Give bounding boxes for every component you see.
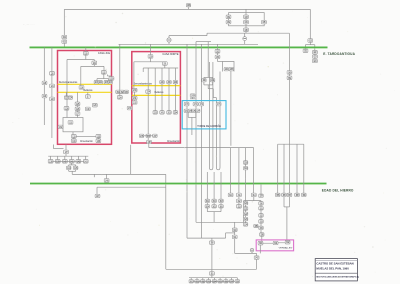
unit box 033 xyxy=(101,71,106,75)
svg-text:Cimentación: Cimentación xyxy=(167,140,180,143)
unit boxes row 2 center xyxy=(206,203,208,205)
unit box 014 xyxy=(262,20,267,24)
left column boxes box2 xyxy=(132,88,137,92)
svg-text:CASA JCE: CASA JCE xyxy=(98,52,110,55)
wire bracket under rows xyxy=(206,208,208,212)
unit box 007 xyxy=(314,54,316,55)
svg-text:Derrumbamientos: Derrumbamientos xyxy=(134,83,153,86)
unit box 038 xyxy=(64,107,69,111)
wire L1 xyxy=(67,59,94,61)
unit box 094b above blue box xyxy=(190,94,195,98)
unit box 022 xyxy=(50,72,55,76)
title block inner top line xyxy=(315,260,357,262)
wire lower horizontal y187 xyxy=(97,186,166,188)
unit box 042 left edge xyxy=(58,125,63,129)
unit box 021 xyxy=(42,94,47,98)
dash 140-141 xyxy=(263,242,273,244)
wire red box 2 corner drop xyxy=(130,145,132,175)
unit box 111 xyxy=(237,193,242,197)
bottom row boxes xyxy=(190,278,192,280)
wire L2 xyxy=(81,65,104,67)
wire L1b xyxy=(134,61,165,63)
wire to bottom box xyxy=(147,138,149,141)
wire under pair 90-91 xyxy=(203,82,205,85)
unit box 002 xyxy=(62,35,67,39)
unit box 118b xyxy=(245,164,247,166)
wire stub to magenta xyxy=(286,207,288,241)
unit box 090 xyxy=(202,79,207,83)
wire into green line xyxy=(63,43,65,47)
svg-text:~ . — · - ··: ~ . — · - ·· xyxy=(23,24,35,27)
wire bottom U xyxy=(166,268,257,270)
wire L2 left drop xyxy=(80,66,82,85)
hairpin loop 1 xyxy=(209,62,213,170)
unit box pair between xyxy=(116,90,121,94)
svg-text:SECTOR A (SECUENCIA ESTRATIGRA: SECTOR A (SECUENCIA ESTRATIGRAFICA) xyxy=(316,276,359,279)
wire pair bracket xyxy=(71,163,73,165)
unit box 015 below loop xyxy=(244,28,249,32)
wire vertical x187 xyxy=(186,44,188,238)
wire branch under 112 xyxy=(253,197,255,201)
unit box 050 xyxy=(64,150,69,154)
wire center drop box2 xyxy=(147,68,149,90)
unit box row y136 xyxy=(139,134,144,138)
wire riser to bottom U xyxy=(256,259,258,269)
wire long vertical x166 xyxy=(165,174,167,269)
wire L1 right drop xyxy=(93,60,95,62)
wire B2 down xyxy=(164,65,166,68)
wire vertical x201 xyxy=(200,44,202,238)
wire bracket under 094b xyxy=(192,97,194,99)
unit box 110 xyxy=(228,193,233,197)
unit box 070 xyxy=(148,55,153,59)
wire right drop from top bus xyxy=(309,9,311,38)
unit box 037 xyxy=(87,92,89,94)
red group box CASA NORTE xyxy=(132,52,181,143)
wire step down xyxy=(207,85,209,89)
yellow phase line 2a xyxy=(58,91,112,93)
unit box 094 pair xyxy=(224,68,229,72)
unit box 060 xyxy=(67,166,72,170)
wire fan right segment xyxy=(207,32,289,34)
unit box 113 side xyxy=(254,224,259,228)
unit box 043 xyxy=(71,135,76,139)
unit box 098 xyxy=(216,102,221,106)
wire L2b drops xyxy=(154,68,156,111)
svg-text:CASTRO DE SAN ESTEBAN: CASTRO DE SAN ESTEBAN xyxy=(316,262,353,266)
wire bar drops xyxy=(277,144,279,193)
column B top box xyxy=(260,184,262,194)
unit box 099 pair xyxy=(184,109,189,113)
wire A2 down xyxy=(150,58,152,62)
wire center drop lower xyxy=(147,93,149,134)
unit box 008 xyxy=(314,58,316,59)
wire stub from y222 to 114 xyxy=(234,222,236,228)
wire room down xyxy=(72,132,74,135)
unit box 003 xyxy=(62,40,67,44)
unit box 041 in room xyxy=(68,121,73,125)
unit box 114 xyxy=(232,228,237,232)
circle symbol 116 xyxy=(250,248,254,252)
unit box 061 xyxy=(74,166,79,170)
unit box 024 xyxy=(50,97,55,101)
unit box 030 xyxy=(83,52,88,56)
unit box 044 xyxy=(73,138,75,139)
wire box A down xyxy=(85,55,87,60)
bracket to edge box xyxy=(108,75,112,77)
green line Edad del Hierro xyxy=(30,182,327,184)
unit box 130 xyxy=(287,71,292,75)
unit box 093 xyxy=(217,53,219,55)
unit box 001 above top bus xyxy=(188,7,190,9)
unit box 087 xyxy=(119,94,121,96)
wire L3 xyxy=(97,78,109,80)
wire horizontal y222 xyxy=(196,221,244,223)
wire horizontal y253 xyxy=(235,252,257,254)
wire cluster stem xyxy=(245,9,247,33)
wire L2b xyxy=(143,67,178,69)
unit boxes above yellow 1b xyxy=(160,80,165,84)
wire long vertical x289 xyxy=(289,33,291,144)
yellow phase line 2b xyxy=(132,94,181,96)
unit box 080 between yellows 2 xyxy=(146,90,151,94)
unit box 085 on edge xyxy=(109,77,114,81)
wire staircase xyxy=(225,233,227,238)
svg-text:MUELAS DEL PAN, 1990: MUELAS DEL PAN, 1990 xyxy=(316,267,349,271)
unit box 091 xyxy=(210,79,215,83)
column B x261 xyxy=(260,201,262,202)
unit box 036 pair xyxy=(65,92,67,96)
wire stub to box 120 xyxy=(211,238,213,241)
wire top bus xyxy=(64,8,310,10)
junction stub xyxy=(93,174,95,177)
unit box 020 xyxy=(42,81,47,85)
svg-text:CASA NORTE: CASA NORTE xyxy=(162,53,178,56)
unit box 096 xyxy=(193,102,198,106)
wire bracket y41 xyxy=(196,41,211,43)
dash 141-142 xyxy=(278,242,285,244)
unit box 071 xyxy=(162,62,167,66)
wire long horizontal y174 xyxy=(72,173,166,175)
unit box 032 between yellow lines xyxy=(79,86,84,90)
wire left corner stub xyxy=(52,145,54,149)
unit box 004 xyxy=(308,39,313,43)
red group box CASA JCE xyxy=(58,51,112,145)
dash row bottom xyxy=(193,280,235,282)
wire x212 down xyxy=(211,244,213,271)
svg-text:Rellenos: Rellenos xyxy=(155,92,165,94)
wire x234 down xyxy=(234,239,236,254)
wire under pair xyxy=(68,170,70,172)
unit box 023 xyxy=(50,84,55,88)
wire bracket under pairs xyxy=(187,113,189,118)
wire columns to box rows xyxy=(206,172,208,199)
yellow phase line 1a xyxy=(58,83,112,85)
unit box 097 xyxy=(199,102,204,106)
wire fan step xyxy=(206,33,208,35)
svg-text:TORRE DE CAMPAÑA: TORRE DE CAMPAÑA xyxy=(197,125,221,128)
wire green to box A xyxy=(85,47,87,51)
unit boxes under 111 xyxy=(238,197,240,199)
unit box 039 xyxy=(92,103,97,107)
wire L3 drops xyxy=(96,79,98,81)
small rect under xyxy=(217,59,219,62)
magenta group box Versalles xyxy=(256,240,293,251)
wire box C down xyxy=(103,74,105,79)
breaker symbol right xyxy=(244,33,246,36)
wire pair box drop to lower rows xyxy=(230,71,232,146)
unit box 035 pair xyxy=(104,81,109,85)
unit box outside left edge xyxy=(127,106,132,110)
svg-text:E. TARDOANTIGUA: E. TARDOANTIGUA xyxy=(323,52,355,56)
wire sub U under right row xyxy=(283,197,285,207)
wire box B down xyxy=(93,65,95,67)
unit box 147 on green 2 xyxy=(106,174,108,178)
unit box 100 pair xyxy=(192,109,197,113)
svg-text:Cimentación: Cimentación xyxy=(80,140,93,143)
unit box 011 xyxy=(226,20,231,24)
svg-text:EDAD DEL HIERRO: EDAD DEL HIERRO xyxy=(322,189,354,193)
unit box 013 xyxy=(244,20,249,24)
wire green to box A2 xyxy=(150,44,152,54)
svg-text:Derrumbamientos: Derrumbamientos xyxy=(59,81,78,84)
wire between boxes drop xyxy=(119,44,121,90)
unit box 131 xyxy=(287,76,292,80)
unit boxes row y112 xyxy=(153,111,158,115)
unit box 121 on U xyxy=(210,272,215,276)
wire L1b left drop xyxy=(133,62,135,89)
wire drops from y147 bus xyxy=(230,148,232,194)
dash row under bar xyxy=(53,160,84,162)
green line E. Tardoantigua xyxy=(30,46,328,48)
column A x245 xyxy=(245,170,247,202)
title block divider xyxy=(315,272,357,274)
unit box 086 xyxy=(124,90,129,94)
wire fan left segment xyxy=(169,35,207,37)
wire L1 left drop xyxy=(66,60,68,118)
wire step bar xyxy=(204,76,213,78)
wire L2 right drop xyxy=(103,66,105,70)
wire sub bus y44 xyxy=(119,43,259,45)
column A upper part xyxy=(245,148,247,161)
unit box 092 xyxy=(215,50,220,54)
unit box 148 xyxy=(95,194,100,198)
wire vertical x196 xyxy=(195,42,197,223)
wire box1 down xyxy=(259,245,261,253)
svg-text:Rellenos: Rellenos xyxy=(84,90,94,92)
wire stub down from bracket xyxy=(191,117,193,135)
unit box 140 xyxy=(258,241,263,245)
unit box 012 xyxy=(244,15,249,19)
unit box 336 xyxy=(260,233,265,237)
unit box 040 xyxy=(85,107,90,111)
wire column B to magenta xyxy=(260,230,262,233)
wire step stem xyxy=(207,44,209,77)
unit box 005 xyxy=(303,49,308,53)
unit boxes row y195 right xyxy=(275,193,280,197)
wire horizontal y147 xyxy=(149,147,254,149)
unit box 112 xyxy=(251,193,256,197)
unit box 006 xyxy=(313,50,318,54)
unit box 081 bottom edge xyxy=(147,140,152,144)
wire bar y144 xyxy=(278,143,304,145)
unit box 118a xyxy=(243,161,248,165)
unit boxes row 1 center xyxy=(205,199,210,203)
wire stub to fan bar xyxy=(211,275,213,278)
wire left column b xyxy=(51,47,53,138)
wire below red box 1 xyxy=(65,144,67,150)
wire spread bar xyxy=(65,154,67,157)
wire left drop from top bus xyxy=(63,9,65,35)
unit box 046 xyxy=(97,138,99,139)
dash row cimentacion xyxy=(76,135,96,137)
yellow phase line 1b xyxy=(132,85,181,87)
wire stub to box 148 xyxy=(96,187,98,194)
wire upper boxes x217 xyxy=(217,44,219,49)
wire below red box 2 xyxy=(148,143,150,148)
wire bottom fan bar xyxy=(189,277,237,279)
svg-text:“VERSALLES”: “VERSALLES” xyxy=(278,246,292,249)
room rectangle xyxy=(77,115,79,117)
unit box column x77 xyxy=(77,92,79,102)
unit box 045 xyxy=(96,135,101,139)
unit box 034 pair xyxy=(94,81,99,85)
unit box 115 xyxy=(234,232,236,236)
unit box 117 xyxy=(256,253,258,255)
wire left column a xyxy=(43,47,45,125)
cluster loop xyxy=(229,13,265,26)
unit box 095 xyxy=(184,102,189,106)
unit box row under bar xyxy=(50,156,52,159)
unit box 141 xyxy=(273,241,278,245)
wire horizontal y238 xyxy=(187,237,226,239)
unit box 120 xyxy=(210,241,215,245)
unit box 142 xyxy=(285,240,290,244)
breaker symbol left xyxy=(168,36,170,38)
wire split under box 004 xyxy=(309,42,311,45)
unit box 031 xyxy=(92,61,97,65)
title block frame xyxy=(315,259,357,281)
unit box 010 xyxy=(226,15,231,19)
blue group box Torre de Campana xyxy=(182,101,226,129)
hairpin loop 2 xyxy=(216,72,220,170)
